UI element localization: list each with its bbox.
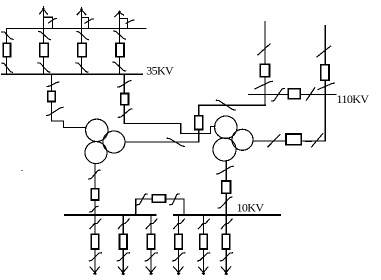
- transformer T1 winding 1: [86, 119, 108, 141]
- disconnector QS-D0: [126, 20, 134, 23]
- wire 10KV feeder 5: [203, 215, 205, 274]
- breaker QF-L: [288, 89, 300, 99]
- disconnector QS-D1: [114, 31, 126, 39]
- arrow feeder C: [77, 9, 86, 15]
- wire feeder B tap: [43, 17, 52, 28]
- disconnector QS-P4b: [173, 253, 185, 261]
- disconnector QS-P6: [221, 219, 232, 229]
- breaker QF-P6: [222, 234, 230, 249]
- breaker QF-J: [195, 116, 203, 130]
- bus 35KV main: [2, 73, 142, 75]
- breaker QF-A: [3, 43, 10, 56]
- bus 10KV left: [65, 214, 156, 216]
- disconnector QS-E2: [47, 107, 63, 115]
- breaker QF-P5: [200, 234, 208, 249]
- disconnector QS-J: [216, 100, 235, 110]
- disconnector QS-B0: [49, 19, 57, 23]
- breaker QF-H: [91, 189, 99, 200]
- disconnector QS-F1: [118, 81, 132, 87]
- transformer T2 winding 2: [232, 129, 253, 150]
- disconnector QS-H1: [89, 170, 101, 179]
- breaker QF-F: [121, 93, 129, 104]
- disconnector QS-P1b: [89, 253, 101, 261]
- disconnector QS-L2: [306, 88, 315, 101]
- disconnector QS-M2: [318, 83, 334, 89]
- disconnector QS-M1: [317, 46, 331, 57]
- disconnector QS-B1: [39, 32, 51, 40]
- breaker QF-C: [78, 43, 87, 57]
- disconnector QS-B2: [38, 63, 50, 72]
- disconnector QS-L1: [272, 88, 285, 101]
- wire 10KV feeder 4: [178, 215, 180, 274]
- wire branch to 110KV via breaker: [199, 105, 265, 142]
- disconnector QS-O1: [137, 194, 147, 205]
- svg-text:110KV: 110KV: [337, 92, 370, 106]
- transformer T2 winding 1: [215, 116, 237, 138]
- breaker QF-E: [48, 91, 56, 101]
- disconnector QS-P6b: [220, 253, 232, 261]
- wire 10KV feeder 2: [122, 215, 124, 274]
- arrow feeder 2: [118, 267, 127, 274]
- wire feeder D vertical: [118, 11, 120, 74]
- transformer T1 winding 3: [85, 142, 107, 164]
- disconnector QS-H2: [89, 206, 98, 212]
- breaker QF-P3: [147, 234, 155, 249]
- disconnector QS-C2: [76, 63, 88, 72]
- wire 110KV tie: [249, 93, 336, 95]
- arrow feeder D: [115, 12, 124, 17]
- breaker QF-I: [222, 181, 231, 193]
- disconnector QS-A2: [2, 63, 13, 72]
- wire feeder B vertical: [42, 7, 44, 75]
- disconnector QS-D2: [113, 62, 126, 71]
- disconnector QS-F2: [118, 109, 132, 118]
- svg-text:10KV: 10KV: [237, 201, 265, 215]
- disconnector QS-C0: [85, 19, 94, 23]
- wire T1 right lead: [125, 141, 199, 143]
- transformer T2 winding 3: [213, 138, 236, 161]
- breaker QF-P4: [175, 234, 183, 249]
- disconnector QS-P3: [146, 219, 157, 229]
- svg-text:35KV: 35KV: [146, 64, 174, 78]
- wire 10KV feeder 6: [225, 215, 227, 274]
- disconnector QS-I1: [217, 166, 234, 174]
- disconnector QS-I2: [218, 197, 232, 208]
- wire 10KV feeder 3: [150, 215, 152, 274]
- bus 10KV right: [174, 214, 280, 216]
- breaker QF-O: [152, 195, 165, 202]
- disconnector QS-P1: [90, 219, 101, 229]
- wire feeder C vertical: [81, 8, 83, 75]
- wire feeder A vertical: [6, 28, 8, 74]
- disconnector QS-N1: [268, 135, 280, 147]
- breaker QF-P1: [91, 234, 99, 249]
- disconnector QS-P2: [118, 219, 129, 229]
- breaker QF-B: [40, 43, 49, 57]
- disconnector QS-A1: [2, 32, 13, 40]
- disconnector QS-P3b: [145, 253, 157, 261]
- disconnector QS-K1: [258, 44, 270, 55]
- disconnector QS-P5: [199, 219, 210, 229]
- wire feeder D tap: [119, 19, 127, 29]
- arrow feeder 5: [199, 267, 208, 274]
- arrow feeder 4: [174, 267, 183, 274]
- disconnector QS-P4: [174, 219, 185, 229]
- arrow feeder 6: [221, 267, 230, 274]
- wire 110KV right line: [253, 26, 325, 141]
- wire feeder C tap: [82, 18, 89, 29]
- bus top 35KV feeder bus: [6, 27, 146, 29]
- breaker QF-K: [260, 64, 269, 76]
- wire 10KV bypass: [136, 199, 184, 215]
- wire 110KV left line: [264, 22, 266, 106]
- disconnector QS-P2b: [117, 253, 129, 261]
- breaker QF-N: [286, 134, 301, 145]
- wire T2 bottom lead: [225, 161, 227, 234]
- disconnector QS-P5b: [198, 253, 210, 261]
- disconnector QS-K2: [255, 81, 273, 89]
- breaker QF-P2: [119, 234, 127, 249]
- disconnector QS-N2: [306, 134, 323, 147]
- transformer T1 winding 2: [103, 131, 125, 153]
- wire 10KV feeder 1: [94, 215, 96, 274]
- arrow feeder B: [40, 8, 48, 14]
- wire 35KV right drop: [124, 74, 215, 133]
- arrow feeder 1: [90, 267, 99, 274]
- disconnector QS-G: [167, 138, 184, 146]
- arrow feeder 3: [146, 267, 155, 274]
- wire 35KV left drop: [51, 74, 85, 127]
- breaker QF-M: [321, 65, 329, 81]
- disconnector QS-C1: [77, 32, 89, 40]
- breaker QF-D: [116, 43, 124, 57]
- disconnector QS-E1: [47, 82, 59, 86]
- disconnector QS-O2: [170, 194, 179, 205]
- node stray dot: [21, 170, 23, 172]
- wire T1 bottom lead: [94, 164, 96, 234]
